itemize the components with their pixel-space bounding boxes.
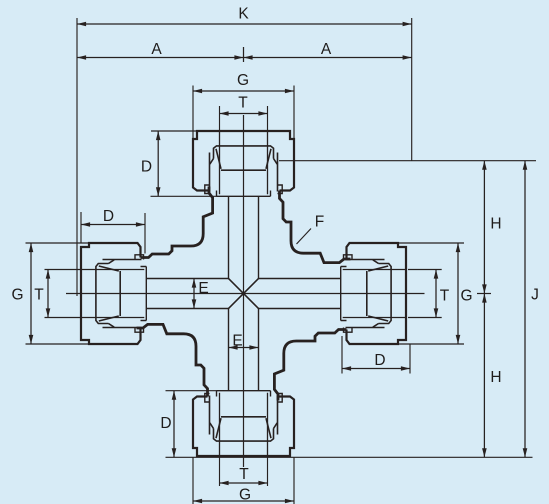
svg-text:E: E [232,333,242,350]
fitting: four rotated port assemblies [193,131,351,294]
A dimension line right [244,57,412,59]
svg-text:A: A [151,41,162,58]
right D dimension line [342,368,410,370]
left D dimension line [81,224,145,226]
extension line right (K/A) [411,18,413,161]
svg-text:H: H [490,369,501,386]
H upper dimension line [483,161,485,294]
A dimension line left [77,57,244,59]
top T extension lines [219,106,221,131]
svg-text:D: D [103,208,114,225]
centerline vertical [243,115,245,467]
bottom D dimension line [173,391,175,458]
H/J top reference line [279,160,536,162]
svg-text:G: G [239,487,251,504]
bottom T dimension line [220,482,268,484]
top D extension lines [151,130,196,132]
left G extension lines [26,242,90,244]
top G extension lines [192,86,194,139]
right T dimension line [435,270,437,318]
bottom T extension lines [219,458,221,487]
svg-text:E: E [198,280,208,297]
svg-text:A: A [321,41,332,58]
svg-text:D: D [160,415,171,432]
right G dimension line [457,243,459,344]
left G dimension line [30,243,32,344]
svg-text:D: D [374,352,385,369]
centerline horizontal [66,293,425,295]
svg-text:F: F [315,214,324,231]
A center tick [243,47,245,62]
J dimension line [524,161,526,458]
left D extension lines [80,212,82,243]
right D extension lines [341,336,343,374]
svg-text:T: T [34,287,44,304]
svg-text:G: G [460,288,472,305]
H/J bottom reference line [166,456,533,458]
svg-text:G: G [237,72,249,89]
left T extension lines [45,269,82,271]
bottom E dimension line [229,347,259,349]
left E dimension line [193,279,195,309]
svg-text:J: J [531,287,539,304]
right T extension lines [408,269,442,271]
bottom G dimension line [193,500,294,502]
F leader line [297,229,312,245]
extension line left (K/A) [76,18,78,296]
K dimension line [77,23,412,25]
centerline tick near H line [477,293,491,295]
bottom G extension lines [192,458,194,504]
bottom D extension line [166,390,217,392]
top G dimension line [193,90,294,92]
right G extension lines [398,242,464,244]
svg-text:T: T [238,95,248,112]
top T dimension line [220,113,268,115]
H lower dimension line [483,294,485,458]
left T dimension line [47,270,49,318]
svg-text:G: G [11,287,23,304]
svg-text:T: T [239,466,249,483]
svg-text:H: H [490,216,501,233]
svg-text:T: T [440,288,450,305]
top D dimension line [157,131,159,196]
svg-text:D: D [141,159,152,176]
svg-text:K: K [238,6,249,23]
